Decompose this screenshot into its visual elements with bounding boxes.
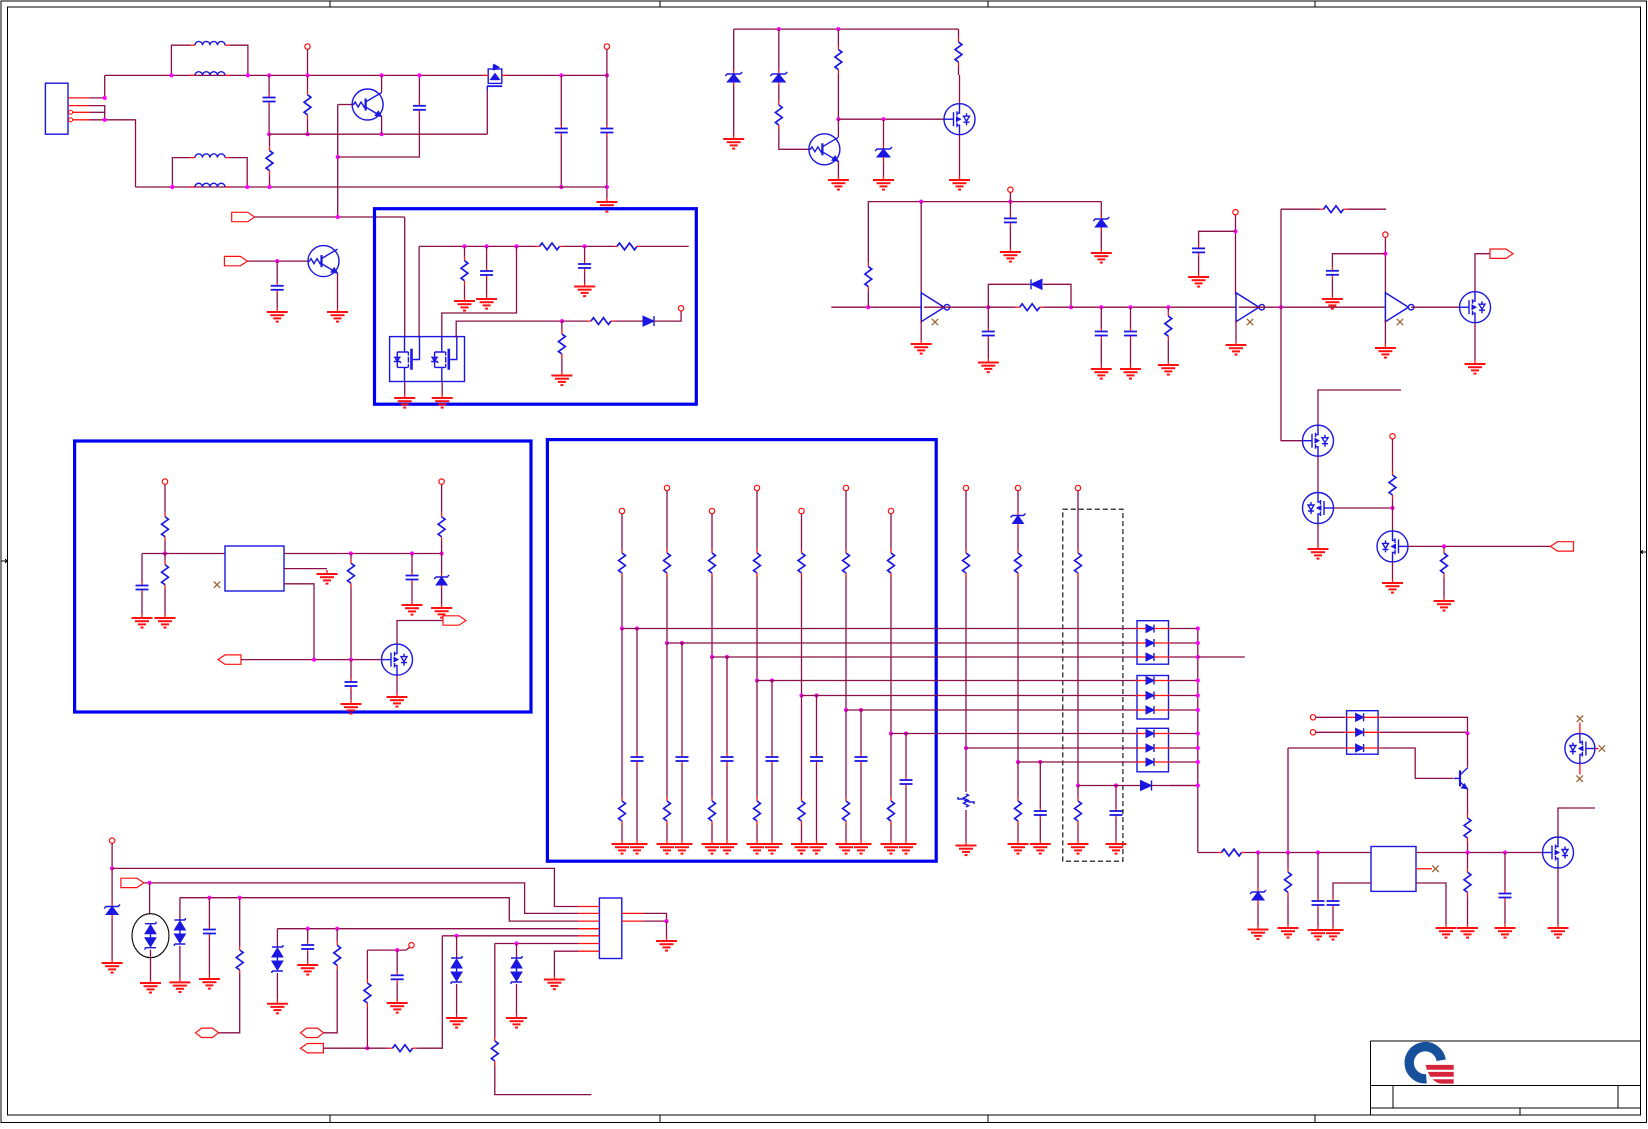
wire reg in	[142, 553, 225, 555]
inductor L2	[190, 72, 230, 76]
bidir port 1	[196, 1028, 219, 1037]
ground	[656, 937, 677, 951]
wire gate bus	[838, 118, 944, 120]
junction	[770, 678, 774, 682]
wire R11 gnd	[1443, 580, 1445, 597]
junction	[859, 708, 863, 712]
wire col8 lower	[965, 748, 967, 792]
resistor R9	[1281, 206, 1386, 213]
wire tvs4 stem	[456, 936, 458, 958]
junction	[1256, 850, 1260, 854]
terminal col7	[888, 508, 893, 513]
ground	[949, 176, 970, 190]
junction	[836, 27, 840, 31]
wire col6 cap gnd	[860, 765, 862, 841]
ground	[612, 840, 633, 854]
capacitor C16	[345, 679, 358, 690]
wire R19 down	[350, 593, 352, 660]
diode D6	[1031, 279, 1042, 289]
x mark	[214, 582, 220, 588]
x mark	[1577, 776, 1583, 782]
dashed box	[1063, 509, 1123, 861]
wire col6 mid	[845, 578, 847, 710]
x mark	[1432, 866, 1438, 872]
wire Q3 emitter	[837, 162, 839, 177]
wire col3 mid	[711, 578, 713, 657]
wire U2 gnd1	[404, 382, 406, 395]
resistor R14	[461, 246, 468, 295]
resistor R23	[1285, 853, 1292, 913]
junction	[267, 132, 271, 136]
resistor R26	[334, 929, 341, 982]
wire M7 source	[396, 675, 398, 693]
wire col1 gnd	[621, 826, 623, 840]
junction	[1076, 783, 1080, 787]
wire C5 stem	[276, 261, 278, 282]
TVS diode pair D15	[272, 945, 283, 973]
capacitor C9	[1124, 328, 1137, 339]
resistor Rc5	[798, 548, 805, 578]
MOSFET	[382, 644, 413, 675]
inverter U1B	[1236, 293, 1265, 322]
wire R4 down	[837, 90, 839, 119]
wire C15 gnd	[411, 583, 413, 601]
ground	[1548, 924, 1569, 938]
ground	[702, 840, 723, 854]
diode D10	[1141, 781, 1152, 791]
junction	[410, 551, 414, 555]
wire C7 gnd	[987, 339, 989, 359]
wire Q4 emitter	[1467, 789, 1469, 813]
wire da out	[1171, 709, 1198, 711]
wire mid	[269, 133, 487, 135]
junction	[110, 866, 114, 870]
wire pin4	[90, 120, 136, 187]
junction	[1442, 544, 1446, 548]
wire res wire	[323, 1047, 385, 1049]
junction	[665, 641, 669, 645]
terminal col5	[799, 508, 804, 513]
junction	[380, 73, 384, 77]
wire R6 top	[868, 202, 1101, 246]
wire col7 cap gnd	[905, 788, 907, 841]
ground	[341, 700, 362, 714]
ground	[102, 959, 123, 973]
wire pin3 stub	[90, 111, 106, 113]
ground	[717, 840, 738, 854]
junction	[267, 185, 271, 189]
wire M2 gate out	[1334, 507, 1393, 509]
ground	[1188, 273, 1209, 287]
MOSFET	[1565, 734, 1595, 764]
junction	[1196, 783, 1200, 787]
wire C12 gnd	[486, 279, 488, 296]
wire C10 link	[1199, 231, 1236, 245]
junction	[1196, 760, 1200, 764]
capacitor C6	[1004, 215, 1017, 226]
wire col10 lower	[1077, 786, 1079, 797]
wire C4 bottom	[606, 136, 608, 187]
ground	[317, 570, 338, 584]
wire col5 lower	[801, 696, 803, 797]
resistor R5	[955, 29, 962, 75]
junction	[1016, 760, 1020, 764]
ground	[454, 297, 475, 311]
resistor R24	[1464, 853, 1471, 913]
wire inv1 out	[924, 306, 988, 308]
wire M4 source	[1557, 868, 1559, 924]
ground	[297, 961, 318, 975]
transistor	[352, 89, 383, 120]
ground	[574, 283, 595, 297]
resistor Rd7	[888, 796, 895, 826]
resistor Rd3	[709, 796, 716, 826]
ground	[1375, 344, 1396, 358]
wire C3 top	[560, 75, 562, 125]
wire R15 gnd	[561, 367, 563, 372]
terminal P11	[1310, 730, 1315, 735]
wire D11 gnd	[1257, 906, 1259, 926]
wire col3 gnd	[711, 826, 713, 840]
wire da out	[1171, 695, 1198, 697]
wire M3 out right	[1408, 545, 1551, 547]
wire hbus box1	[419, 245, 533, 247]
MOSFET	[944, 104, 975, 135]
wire da4 out3	[1380, 748, 1453, 778]
wire D7 up	[654, 311, 681, 321]
ground	[1030, 840, 1051, 854]
wire R23 gnd	[1287, 912, 1289, 924]
wire col1 cap gnd	[636, 765, 638, 841]
diode array DA3	[1135, 728, 1171, 772]
junction	[814, 693, 818, 697]
inverter U1C	[1385, 293, 1414, 322]
ground	[394, 394, 415, 408]
wire chain	[1071, 306, 1236, 308]
ground	[431, 604, 452, 618]
resistor R2	[266, 134, 273, 187]
wire P10 stub	[1316, 716, 1345, 718]
TVS diode pair D17	[511, 956, 522, 984]
wire loop2 right	[230, 158, 247, 187]
resistor Rc6	[843, 548, 850, 578]
ground	[446, 1014, 467, 1028]
wire reg fb pin	[284, 584, 314, 660]
MOSFET	[1303, 493, 1334, 524]
wire port1	[255, 216, 405, 218]
input port 5	[218, 655, 241, 664]
wire hbus box1 b	[566, 245, 614, 247]
wire lower bus	[136, 186, 607, 188]
resistor Rc9	[1015, 548, 1022, 578]
junction	[275, 259, 279, 263]
wire col9 upper	[1017, 529, 1019, 548]
wire zener D3 lead	[778, 29, 780, 66]
junction	[336, 215, 340, 219]
junction	[620, 626, 624, 630]
wire J2 right2	[644, 920, 667, 922]
wire P9 stem	[441, 484, 443, 500]
terminal P7	[678, 306, 683, 311]
wire M6 source	[1474, 323, 1476, 360]
junction	[755, 678, 759, 682]
capacitor C4	[600, 125, 613, 136]
wire C22 stem	[396, 950, 398, 972]
input port 7	[121, 878, 144, 887]
junction	[1233, 229, 1237, 233]
resistor R25	[236, 944, 243, 976]
wire C1 top	[268, 75, 270, 94]
wire col9 lower	[1017, 762, 1019, 796]
wire riser x1281	[1280, 209, 1282, 307]
wire C11 gnd	[1331, 279, 1333, 296]
resistor R4	[835, 29, 842, 90]
capacitor C14	[136, 582, 149, 593]
junction	[1196, 731, 1200, 735]
resistor Rd6	[843, 796, 850, 826]
wire w5	[442, 935, 578, 937]
junction	[163, 551, 167, 555]
junction	[417, 73, 421, 77]
wire w6 corner	[494, 944, 496, 1037]
wire da stub r3	[1198, 656, 1245, 658]
output port 6	[443, 616, 466, 625]
wire gate in	[241, 659, 382, 661]
junction	[889, 731, 893, 735]
terminal P4	[1233, 210, 1238, 215]
wire col3 cap drop	[726, 657, 728, 754]
zener D5	[1093, 212, 1109, 234]
wire M8 top stub	[1579, 723, 1581, 734]
thermistor RT1	[958, 794, 974, 807]
wire col8 gnd	[965, 810, 967, 842]
junction	[1316, 850, 1320, 854]
bidir port 2	[301, 1028, 324, 1037]
ground	[1457, 924, 1478, 938]
wire R16-D7	[640, 320, 643, 322]
wire tvs5 gnd	[516, 984, 518, 1014]
ground	[978, 359, 999, 373]
junction	[680, 641, 684, 645]
resistor R12	[533, 243, 566, 250]
junction	[799, 693, 803, 697]
wire col4 gnd	[756, 826, 758, 840]
ground	[1465, 360, 1486, 374]
ground	[1226, 341, 1247, 355]
ground	[806, 840, 827, 854]
ground	[387, 999, 408, 1013]
resistor R11	[1441, 546, 1448, 580]
zener D4	[875, 142, 892, 164]
wire C9 gnd	[1130, 339, 1132, 365]
junction	[844, 708, 848, 712]
wire C19 gnd	[1504, 901, 1506, 924]
capacitor C17	[1312, 898, 1325, 909]
ground	[1382, 579, 1403, 593]
wire col2 top	[666, 491, 668, 548]
junction	[1196, 641, 1200, 645]
wire col6 lower	[845, 710, 847, 796]
wire U2 gnd2	[441, 382, 443, 395]
resistor R3	[775, 90, 782, 140]
wire U4 gnd pin	[1416, 883, 1446, 924]
wire C5 gnd	[276, 293, 278, 308]
wire col10 top	[1077, 491, 1079, 548]
wire Q1 base	[338, 104, 352, 106]
ground	[1008, 840, 1029, 854]
wire C1 bottom	[268, 105, 270, 134]
junction	[1114, 783, 1118, 787]
output port 7	[300, 1044, 323, 1053]
junction	[964, 746, 968, 750]
title block	[1371, 1041, 1641, 1115]
ground	[1434, 597, 1455, 611]
wire P3 stem	[1009, 192, 1011, 201]
terminal col4	[754, 485, 759, 490]
junction	[395, 948, 399, 952]
wire zener D5 lead	[1100, 202, 1102, 212]
wire col7 mid	[890, 578, 892, 734]
wire gate2 route	[442, 246, 517, 338]
regulator U3	[225, 546, 284, 591]
wire M8 bottom stub	[1579, 764, 1581, 775]
ground	[1278, 924, 1299, 938]
resistor Rc2	[664, 548, 671, 578]
wire M4 drain	[1558, 808, 1595, 837]
wire P5 stem	[1384, 237, 1386, 294]
wire col4 mid	[756, 578, 758, 681]
capacitor Cc9	[1034, 808, 1047, 819]
wire tvs2 gnd	[179, 946, 181, 978]
wire C13 stem	[584, 246, 586, 260]
wire rail left	[1198, 852, 1218, 854]
wire col2 cap gnd	[681, 765, 683, 841]
resistor Rc7	[888, 548, 895, 578]
wire col2 gnd	[666, 826, 668, 840]
wire M5 source	[959, 135, 961, 176]
junction	[1279, 305, 1283, 309]
wire M8 right stub	[1595, 748, 1598, 750]
wire P2 riser	[606, 49, 608, 125]
terminal P2	[604, 44, 609, 49]
capacitor C10	[1192, 245, 1205, 256]
wire w950	[367, 949, 406, 951]
junction	[881, 117, 885, 121]
wire C2 top	[418, 75, 420, 102]
wire col2 tap	[667, 642, 1137, 644]
wire col10 cap gnd	[1115, 819, 1117, 841]
junction	[560, 319, 564, 323]
wire reg gnd pin	[284, 568, 327, 570]
capacitor C22	[391, 972, 404, 983]
wire R3 to Q3	[779, 140, 809, 149]
junction	[1196, 626, 1200, 630]
dual MOSFET pack U2	[390, 337, 465, 382]
wire col7 tap	[891, 733, 1137, 735]
capacitor Cc2	[676, 754, 689, 765]
wire D2 gnd	[733, 90, 735, 135]
junction	[1196, 708, 1200, 712]
wire w2	[144, 883, 578, 914]
wire U4 pin bl	[1333, 883, 1371, 898]
capacitor C7	[982, 328, 995, 339]
junction	[1008, 200, 1012, 204]
wire hbus box1 c	[640, 245, 689, 247]
junction	[664, 919, 668, 923]
wire J2 right gnd	[666, 921, 668, 937]
resistor R16	[562, 318, 640, 325]
wire w6	[495, 943, 578, 945]
wire w4	[277, 928, 599, 930]
ground	[169, 978, 190, 992]
wire D12 gnd	[111, 920, 113, 959]
capacitor C15	[406, 572, 419, 583]
wire gate1 drop	[418, 246, 420, 338]
ground	[791, 840, 812, 854]
schottky diode D7	[643, 316, 654, 326]
wire top bus	[105, 74, 486, 76]
junction	[836, 117, 840, 121]
wire C3 bottom	[560, 136, 562, 187]
terminal col2	[664, 485, 669, 490]
capacitor C21	[301, 942, 314, 953]
resistor Rd2	[664, 796, 671, 826]
wire col7 lower	[890, 734, 892, 797]
wire C6 gnd	[1009, 226, 1011, 248]
wire hex2 down	[324, 982, 338, 1033]
wire col7 top	[890, 514, 892, 548]
wire loop1 right	[230, 45, 248, 75]
wire da out	[1171, 642, 1198, 644]
terminal P3	[1008, 187, 1013, 192]
wire col4 cap drop	[771, 681, 773, 754]
wire C21 stem	[307, 929, 309, 942]
capacitor C8	[1095, 328, 1108, 339]
ground	[911, 340, 932, 354]
block box 3	[547, 440, 936, 862]
wire port2	[247, 260, 308, 262]
junction	[305, 132, 309, 136]
capacitor C1	[263, 94, 276, 105]
terminal col9	[1015, 485, 1020, 490]
wire inv3 gnd stem	[1384, 320, 1386, 344]
junction	[380, 132, 384, 136]
wire inv1 gnd stem	[920, 320, 922, 340]
wire M3 source gnd	[1392, 562, 1394, 579]
ground	[1091, 249, 1112, 263]
wire col1 cap drop	[636, 629, 638, 754]
wire pack drain	[486, 90, 488, 135]
ground	[1322, 295, 1343, 309]
wire col5 cap gnd	[816, 765, 818, 841]
junction	[1038, 760, 1042, 764]
junction	[440, 551, 444, 555]
wire da4 out1	[1380, 717, 1467, 733]
ground	[672, 840, 693, 854]
x mark	[1577, 716, 1583, 722]
wire C9 stem	[1130, 307, 1132, 328]
ground	[476, 295, 497, 309]
wire P12 stem	[111, 843, 113, 868]
wire col5 tap	[802, 695, 1138, 697]
wire col3 lower	[711, 657, 713, 796]
wire col10 cap drop	[1115, 786, 1117, 808]
terminal P1	[305, 44, 310, 49]
wire col10 gnd	[1077, 826, 1079, 840]
ground	[1495, 924, 1516, 938]
junction	[1465, 731, 1469, 735]
wire col4 lower	[756, 681, 758, 797]
